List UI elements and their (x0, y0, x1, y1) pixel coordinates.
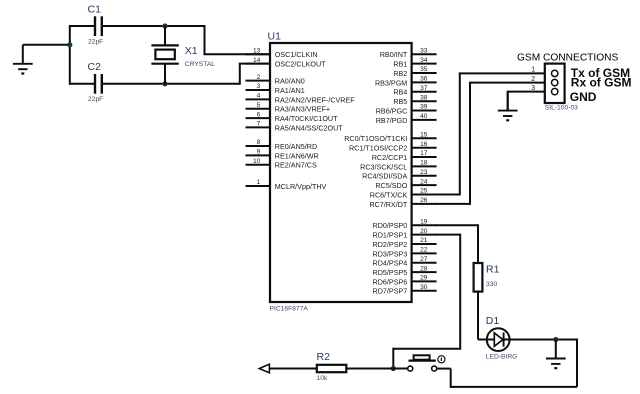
svg-text:GND: GND (570, 90, 597, 104)
svg-text:22pF: 22pF (88, 39, 103, 46)
svg-text:18: 18 (420, 160, 428, 167)
U1 pin 6 (RA4/T0CKI/C1OUT) (246, 111, 339, 123)
U1 pin 33 (RB0/INT) (380, 47, 437, 59)
svg-text:GSM CONNECTIONS: GSM CONNECTIONS (517, 52, 619, 63)
svg-text:RC4/SDI/SDA: RC4/SDI/SDA (362, 172, 407, 181)
svg-text:SIL-100-03: SIL-100-03 (545, 105, 578, 112)
U1 pin 2 (RA0/AN0) (246, 74, 305, 86)
svg-text:33: 33 (420, 47, 428, 54)
wire R1 bottom to LED (477, 292, 479, 340)
svg-text:19: 19 (420, 219, 428, 226)
U1 pin 8 (RE0/AN5/RD) (246, 139, 318, 151)
U1 pin 40 (RB7/PGD) (376, 113, 437, 125)
svg-text:2: 2 (257, 74, 261, 81)
U1 pin 4 (RA2/AN2/VREF-/CVREF) (246, 93, 356, 105)
svg-text:14: 14 (253, 57, 261, 64)
wire into OSC2/CLKOUT pin 14 (239, 63, 270, 65)
U1 pin 3 (RA1/AN1) (246, 83, 305, 95)
svg-text:30: 30 (420, 284, 428, 291)
svg-text:RE0/AN5/RD: RE0/AN5/RD (275, 142, 317, 151)
svg-text:C1: C1 (88, 4, 102, 16)
connector pin circle 3 (552, 88, 558, 94)
svg-text:29: 29 (420, 275, 428, 282)
U1 pin 36 (RB3/PGM) (375, 76, 437, 88)
wire riser up to GSM pin 1 (459, 73, 461, 195)
svg-text:38: 38 (420, 94, 428, 101)
svg-text:RE2/AN7/CS: RE2/AN7/CS (275, 161, 317, 170)
U1 pin 17 (RC2/CCP1) (372, 150, 437, 162)
U1 pin 20 (RD1/PSP1) (373, 228, 437, 240)
wire down to R1 top (477, 224, 479, 263)
svg-text:R1: R1 (486, 264, 500, 276)
capacitor C2 (95, 74, 102, 94)
wire to C1 left plate (70, 25, 94, 27)
svg-text:RC3/SCK/SCL: RC3/SCK/SCL (360, 162, 407, 171)
svg-text:24: 24 (420, 178, 428, 185)
microcontroller U1 (270, 43, 412, 302)
svg-text:CRYSTAL: CRYSTAL (185, 61, 216, 68)
svg-text:10k: 10k (317, 375, 328, 382)
U1 pin 13 (OSC1/CLKIN) (246, 47, 318, 59)
wire RD0 pin 19 to R1 corner (436, 224, 478, 226)
wire riser up to GSM pin 2 (469, 83, 471, 205)
wire RC7/RX pin 26 to riser (436, 203, 470, 205)
svg-text:7: 7 (257, 121, 261, 128)
connector J1 SIL-100-03 body (545, 64, 565, 103)
wire corner down to pin 13 row (204, 25, 206, 54)
U1 pin 21 (RD2/PSP2) (373, 237, 437, 249)
svg-text:330: 330 (486, 281, 497, 288)
svg-text:RB5: RB5 (393, 97, 407, 106)
wire to GSM connector pin 2 (469, 82, 551, 84)
svg-text:RB6/PGC: RB6/PGC (376, 106, 408, 115)
svg-text:16: 16 (420, 141, 428, 148)
svg-text:RA4/T0CKI/C1OUT: RA4/T0CKI/C1OUT (275, 114, 338, 123)
svg-text:23: 23 (420, 169, 428, 176)
U1 pin 22 (RD3/PSP3) (373, 247, 437, 259)
wire to GSM connector pin 1 (459, 72, 551, 74)
svg-text:RD3/PSP3: RD3/PSP3 (373, 249, 408, 258)
svg-text:26: 26 (420, 197, 428, 204)
wire RD1 pin 20 to riser (436, 234, 461, 236)
svg-text:4: 4 (257, 93, 261, 100)
wire to C2 left plate (70, 83, 94, 85)
led D1 (487, 328, 510, 351)
U1 pin 16 (RC1/T1OSI/CCP2) (349, 141, 437, 153)
U1 pin 5 (RA3/AN3/VREF+) (246, 102, 331, 114)
U1 pin 18 (RC3/SCK/SCL) (360, 160, 436, 172)
svg-text:22: 22 (420, 247, 428, 254)
resistor R1 (474, 263, 483, 292)
crystal X1 (151, 45, 178, 63)
U1 pin 27 (RD4/PSP4) (373, 256, 437, 268)
svg-text:1: 1 (531, 67, 535, 74)
wire bottom run to button (451, 386, 577, 388)
svg-text:RA5/AN4/SS/C2OUT: RA5/AN4/SS/C2OUT (275, 123, 344, 132)
svg-text:RC2/CCP1: RC2/CCP1 (372, 153, 408, 162)
U1 pin 28 (RD5/PSP5) (373, 265, 437, 277)
resistor R2 (317, 365, 347, 372)
U1 pin 26 (RC7/RX/DT) (369, 197, 436, 209)
svg-text:RD7/PSP7: RD7/PSP7 (373, 287, 408, 296)
wire node to button left terminal (393, 368, 407, 370)
U1 pin 25 (RC6/TX/CK) (370, 188, 437, 200)
svg-text:21: 21 (420, 237, 428, 244)
connector pin circle 2 (552, 79, 558, 85)
U1 pin 10 (RE2/AN7/CS) (246, 158, 317, 170)
button actuator marker (438, 356, 445, 363)
U1 pin 15 (RC0/T1OSO/T1CKI) (344, 132, 436, 144)
wire riser down (459, 234, 461, 349)
svg-text:6: 6 (257, 111, 261, 118)
svg-text:RD0/PSP0: RD0/PSP0 (373, 221, 408, 230)
svg-text:25: 25 (420, 188, 428, 195)
svg-text:28: 28 (420, 265, 428, 272)
svg-text:RB1: RB1 (393, 60, 407, 69)
svg-text:40: 40 (420, 113, 428, 120)
U1 pin 7 (RA5/AN4/SS/C2OUT) (246, 121, 344, 133)
svg-text:RC1/T1OSI/CCP2: RC1/T1OSI/CCP2 (349, 144, 407, 153)
node junction R2/button/RD1 (391, 366, 396, 371)
connector pin circle 1 (552, 70, 558, 76)
svg-text:36: 36 (420, 76, 428, 83)
U1 pin 24 (RC5/SDO) (375, 178, 436, 190)
svg-text:RA0/AN0: RA0/AN0 (275, 77, 305, 86)
wire into LED anode (478, 339, 487, 341)
svg-text:RD2/PSP2: RD2/PSP2 (373, 240, 408, 249)
U1 pin 39 (RB6/PGC) (376, 104, 437, 116)
svg-text:RB2: RB2 (393, 69, 407, 78)
svg-text:22pF: 22pF (88, 96, 103, 103)
svg-text:PIC16F877A: PIC16F877A (270, 306, 309, 313)
U1 pin 19 (RD0/PSP0) (373, 219, 437, 231)
svg-text:9: 9 (257, 149, 261, 156)
wire pin 3 down to ground (507, 91, 509, 110)
U1 pin 34 (RB1) (393, 57, 436, 69)
wire GSM connector pin 3 (508, 91, 552, 93)
U1 pin 30 (RD7/PSP7) (373, 284, 437, 296)
svg-text:35: 35 (420, 66, 428, 73)
svg-text:2: 2 (531, 76, 535, 83)
svg-text:3: 3 (257, 83, 261, 90)
svg-text:RB3/PGM: RB3/PGM (375, 78, 407, 87)
U1 pin 37 (RB4) (393, 85, 436, 97)
wire corner up to pin 14 row (239, 64, 241, 85)
U1 pin 29 (RD6/PSP6) (373, 275, 437, 287)
wire RC6/TX pin 25 to riser (436, 194, 460, 196)
wire R2 to node (346, 368, 393, 370)
wire up to button terminal (450, 369, 452, 388)
ground (LED return) (546, 340, 566, 369)
svg-text:RA3/AN3/VREF+: RA3/AN3/VREF+ (275, 105, 330, 114)
svg-text:R2: R2 (317, 351, 331, 363)
U1 pin 38 (RB5) (393, 94, 436, 106)
svg-text:37: 37 (420, 85, 428, 92)
node junction C1/crystal top (162, 23, 167, 28)
U1 pin 14 (OSC2/CLKOUT) (246, 57, 327, 69)
svg-text:C2: C2 (88, 61, 102, 73)
svg-text:34: 34 (420, 57, 428, 64)
svg-text:RC5/SDO: RC5/SDO (375, 181, 407, 190)
svg-text:RC7/RX/DT: RC7/RX/DT (369, 200, 408, 209)
wire crystal bottom lead (164, 64, 166, 85)
svg-text:Rx of GSM: Rx of GSM (571, 76, 632, 90)
U1 pin 23 (RC4/SDI/SDA) (362, 169, 436, 181)
wire crystal top lead (164, 26, 166, 45)
svg-text:X1: X1 (185, 45, 198, 57)
svg-text:RA2/AN2/VREF-/CVREF: RA2/AN2/VREF-/CVREF (275, 95, 355, 104)
wire C2 right plate to OSC2 corner (103, 83, 240, 85)
svg-text:17: 17 (420, 150, 428, 157)
push button SW (408, 355, 437, 371)
ground (GSM connector pin 3) (498, 92, 518, 121)
svg-text:RD4/PSP4: RD4/PSP4 (373, 259, 408, 268)
svg-text:5: 5 (257, 102, 261, 109)
wire arrow terminal to R2 (269, 368, 317, 370)
node junction rail/ground (67, 42, 72, 47)
svg-text:RB0/INT: RB0/INT (380, 50, 408, 59)
wire into OSC1/CLKIN pin 13 (204, 53, 271, 55)
U1 pin 35 (RB2) (393, 66, 436, 78)
svg-text:OSC2/CLKOUT: OSC2/CLKOUT (275, 60, 326, 69)
capacitor C1 (95, 16, 102, 36)
svg-text:LED-BIRG: LED-BIRG (486, 354, 518, 361)
wire C1 right plate to OSC1 corner (103, 25, 205, 27)
svg-text:RD1/PSP1: RD1/PSP1 (373, 231, 408, 240)
wire down right side (576, 339, 578, 387)
svg-text:RD6/PSP6: RD6/PSP6 (373, 277, 408, 286)
svg-text:RE1/AN6/WR: RE1/AN6/WR (275, 151, 319, 160)
svg-text:OSC1/CLKIN: OSC1/CLKIN (275, 50, 318, 59)
wire down to R2 node (392, 348, 394, 369)
svg-text:15: 15 (420, 132, 428, 139)
svg-text:RB7/PGD: RB7/PGD (376, 116, 408, 125)
svg-text:RA1/AN1: RA1/AN1 (275, 86, 305, 95)
wire C1/C2 left rail (69, 25, 71, 85)
svg-text:10: 10 (253, 158, 261, 165)
U1 pin 9 (RE1/AN6/WR) (246, 149, 319, 161)
ground (left, crystal load caps) (13, 45, 33, 74)
svg-text:MCLR/Vpp/THV: MCLR/Vpp/THV (275, 182, 327, 191)
input terminal arrow (259, 364, 269, 373)
svg-text:RC0/T1OSO/T1CKI: RC0/T1OSO/T1CKI (344, 134, 407, 143)
wire to button right terminal (437, 368, 451, 370)
svg-text:20: 20 (420, 228, 428, 235)
svg-text:27: 27 (420, 256, 428, 263)
svg-text:RB4: RB4 (393, 88, 407, 97)
svg-text:3: 3 (531, 85, 535, 92)
svg-text:RD5/PSP5: RD5/PSP5 (373, 268, 408, 277)
U1 pin 1 (MCLR/Vpp/THV) (246, 179, 327, 191)
svg-text:U1: U1 (268, 31, 282, 43)
node junction LED/ground (553, 337, 558, 342)
wire left to button column (393, 348, 461, 350)
wire ground to C1/C2 rail (23, 44, 70, 46)
svg-text:D1: D1 (486, 315, 500, 327)
svg-text:RC6/TX/CK: RC6/TX/CK (370, 190, 408, 199)
svg-text:1: 1 (257, 179, 261, 186)
svg-text:8: 8 (257, 139, 261, 146)
svg-text:39: 39 (420, 104, 428, 111)
wire LED cathode to ground node (510, 339, 578, 341)
node junction C2/crystal bottom (162, 81, 167, 86)
svg-text:13: 13 (253, 47, 261, 54)
